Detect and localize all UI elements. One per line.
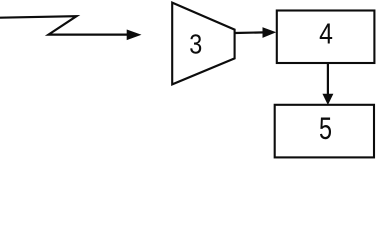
svg-text:5: 5 <box>319 110 332 146</box>
block 5: rectangle <box>275 105 374 158</box>
block 4: rectangle <box>277 11 375 64</box>
svg-text:4: 4 <box>319 19 333 51</box>
wire: block 3 to block 4 <box>235 31 264 34</box>
wire: block 4 to block 5 <box>327 62 329 96</box>
arrowhead into block 4 <box>263 28 276 38</box>
arrowhead into free space before block 3 <box>127 30 141 40</box>
wire: zigzag input line <box>0 16 129 34</box>
svg-text:3: 3 <box>189 29 202 60</box>
arrowhead into block 5 <box>323 94 333 104</box>
block 3: trapezoid <box>172 3 234 85</box>
